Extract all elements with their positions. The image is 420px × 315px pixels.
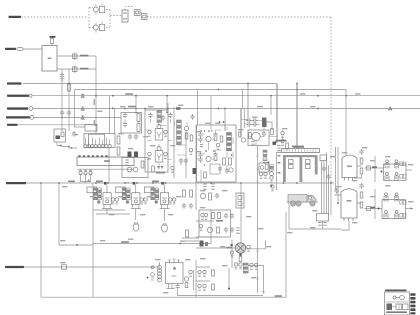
part near bus F	[271, 185, 274, 191]
capacitor C16	[134, 134, 138, 140]
ticks on x263	[262, 292, 264, 294]
coil bar ticks	[283, 149, 285, 151]
pin ladder INJ2b	[127, 188, 131, 190]
injector module INJ1	[103, 193, 111, 205]
wire dashed link	[140, 13, 150, 17]
lamp LP1	[133, 222, 139, 231]
module stem INJ1	[106, 185, 108, 193]
dark component E4	[273, 142, 277, 145]
junction dots core	[144, 108, 146, 110]
pins AMP bottom2	[211, 184, 214, 189]
junction ball INJ3	[155, 200, 158, 203]
module legs INJ3	[160, 204, 170, 208]
connector box INJ2	[116, 187, 126, 193]
wire into subckt	[244, 119, 248, 121]
relay unit A4	[394, 172, 398, 180]
wire x328 down	[328, 165, 330, 215]
wire M-B bottom loop	[341, 221, 349, 230]
box bottom mid frame	[285, 212, 287, 297]
transistor Q1	[93, 7, 98, 12]
capacitor C12	[148, 113, 152, 119]
wire under bar	[77, 168, 134, 170]
capacitor C44	[224, 227, 228, 233]
connector box INJ3	[144, 187, 154, 193]
capacitor C43	[230, 213, 234, 219]
ladder RL2	[157, 111, 162, 113]
wire y241 link	[182, 240, 199, 242]
wire x289 down	[288, 202, 290, 229]
diode D6	[281, 139, 284, 145]
junction dots bus F	[40, 182, 42, 184]
wire to cluster B	[365, 208, 383, 210]
box coil right	[320, 155, 327, 161]
contact sq A	[400, 162, 403, 166]
box BC	[199, 210, 231, 237]
capacitor C26	[215, 193, 219, 199]
label at cluster B	[371, 207, 376, 209]
wire x225 down	[224, 109, 226, 132]
capacitor C34	[334, 188, 338, 194]
wire RL4 out	[249, 266, 264, 294]
transistor Q2	[93, 25, 98, 30]
relay unit A1	[385, 160, 389, 168]
relay unit A2	[394, 160, 398, 168]
pin T3 on SC1	[177, 260, 180, 264]
wire core stubs	[145, 119, 187, 169]
pin ladder INJ1a	[94, 188, 98, 190]
resistor R47	[360, 192, 363, 198]
capacitor C19	[182, 203, 186, 209]
transistor Q7	[206, 156, 211, 161]
module detail INJ3	[162, 197, 167, 199]
value label 31	[168, 214, 174, 215]
module legs INJ2	[131, 204, 141, 208]
resistor R2 on x69	[68, 84, 71, 91]
value label 8	[238, 129, 244, 130]
wire x338 down	[337, 147, 339, 203]
value label 11	[355, 93, 361, 94]
resistor R29	[190, 135, 193, 141]
coil crossbar	[283, 155, 318, 157]
value label 21	[196, 151, 202, 152]
node F label	[6, 182, 26, 184]
wire y245 link	[59, 244, 93, 246]
part in cluster	[61, 132, 64, 137]
pins in AMP	[200, 145, 203, 147]
capacitor C39	[175, 284, 179, 290]
resistor R25	[117, 136, 120, 144]
resistor R42	[249, 133, 252, 139]
sensor G3	[89, 170, 92, 180]
wire x335.5 down	[335, 147, 337, 190]
node A label	[7, 82, 22, 84]
pair INJ1r1	[111, 198, 114, 204]
text above coil	[276, 140, 287, 142]
resistor R28	[185, 133, 188, 139]
inductor on bus G	[62, 265, 67, 269]
resistor R41	[209, 193, 212, 200]
transformer T1	[262, 118, 267, 128]
dark parts below box	[200, 241, 204, 247]
IC U1	[42, 46, 57, 72]
relay unit B3	[384, 210, 388, 218]
pins TB1	[318, 223, 321, 226]
text coil	[292, 146, 304, 148]
resistor R33	[214, 134, 217, 141]
label at cluster A	[372, 166, 377, 168]
junction dots zigzag	[60, 145, 62, 147]
value label 7	[252, 117, 258, 118]
wire bus A y83.5	[23, 83, 277, 85]
relay box B	[382, 200, 406, 219]
wire x211 lower	[210, 210, 212, 244]
wire AMP feeds	[197, 125, 226, 183]
wire bottom y297	[41, 296, 286, 298]
box CH1	[121, 113, 142, 134]
dots in AMP	[204, 130, 205, 131]
wire dashed to F1	[110, 15, 122, 17]
capacitor C18	[184, 158, 188, 164]
arrow in SC1	[173, 266, 177, 269]
module detail INJ2	[134, 197, 139, 199]
value label 26	[176, 196, 182, 197]
pair RL4r1	[250, 263, 253, 269]
capacitor C42	[224, 213, 228, 219]
diode D1 on bus B	[81, 94, 84, 97]
value label 1	[97, 111, 103, 112]
wire bus G y267	[24, 266, 160, 268]
dark junction INJ2	[133, 182, 136, 185]
wire y214 link	[96, 213, 130, 215]
resistor R29b	[152, 166, 155, 172]
legend side label 3	[410, 301, 415, 304]
label left of coil box	[278, 155, 281, 157]
value label 14	[336, 186, 342, 187]
switch S1a	[100, 6, 105, 12]
wire x62 down	[61, 75, 63, 131]
switch S1b	[100, 24, 105, 30]
resistor R51	[212, 284, 215, 290]
box TB1	[317, 214, 329, 222]
resistor R46	[360, 168, 363, 174]
wire N3 stem	[163, 209, 165, 221]
value label 54	[220, 246, 226, 247]
capacitor C30	[252, 122, 258, 126]
label near C4	[75, 134, 79, 135]
resistor R37	[220, 136, 223, 142]
wire N2 stem	[135, 209, 137, 220]
dots x112.8	[112, 95, 114, 97]
value label 55	[266, 246, 272, 247]
pair in AMP	[216, 143, 219, 149]
value label 20	[196, 131, 202, 132]
pair ignB	[270, 176, 273, 182]
wire x168 stub	[167, 103, 169, 110]
legend side label 5	[410, 308, 415, 311]
value label 38	[163, 292, 169, 293]
coil post right	[315, 157, 318, 175]
value label 52	[128, 239, 134, 240]
capacitor C22	[198, 137, 202, 143]
connector J2	[17, 47, 23, 50]
capacitor C15	[128, 134, 132, 140]
ladder RL4	[243, 263, 248, 265]
legend item box1	[396, 304, 402, 310]
value label 6	[215, 123, 221, 124]
wire M-A out	[354, 166, 362, 178]
value label 33	[246, 216, 252, 217]
wire bus B y95.7	[32, 95, 420, 97]
wire dashed down right side	[330, 17, 332, 182]
value label 16	[143, 136, 149, 137]
wire x232 chain	[231, 240, 233, 268]
pair P3b	[164, 152, 167, 158]
text on bus F 3	[152, 181, 159, 183]
wire x197.5 down	[197, 90, 199, 126]
value label 27	[200, 190, 206, 191]
capacitor C11	[123, 122, 127, 128]
value label 40	[222, 265, 228, 266]
box ignA	[259, 163, 269, 172]
text bottom right corner	[275, 295, 283, 297]
wire x346 down	[345, 90, 347, 156]
wire dashed	[106, 9, 110, 11]
pins TB1b	[323, 223, 326, 226]
resistor R40	[229, 158, 232, 165]
wire to cluster A	[365, 167, 384, 169]
part in box1	[238, 196, 242, 200]
wire x114.4 down	[113, 108, 115, 133]
value label 57	[330, 156, 336, 157]
connector JC	[29, 107, 33, 111]
twin contact K1a	[84, 138, 91, 148]
label x96 lower	[94, 120, 95, 126]
wire bus C y108.5	[33, 108, 420, 110]
label left of coil box 2	[278, 162, 281, 164]
contact sq B	[400, 201, 403, 205]
junction x338	[337, 202, 339, 204]
resistor R41b	[204, 172, 207, 178]
text BC	[216, 220, 223, 222]
wire x242.5 down	[242, 90, 244, 109]
value label 46	[385, 185, 391, 186]
resistor R27	[141, 161, 144, 168]
value label 15	[118, 133, 124, 134]
driver module M2	[155, 146, 163, 162]
relay unit A3	[385, 172, 389, 180]
legend footer text	[386, 311, 407, 313]
motor M-A	[342, 155, 357, 178]
ring A	[263, 157, 267, 161]
wire BC links	[196, 221, 220, 237]
node C label	[7, 107, 28, 109]
wire x211 down	[210, 96, 212, 125]
legend connector dark	[387, 304, 393, 311]
pair ignA2	[264, 172, 267, 178]
dark part in cluster	[56, 136, 61, 140]
dark component E1	[128, 152, 132, 158]
capacitor C13	[168, 113, 172, 119]
pair INJ2r2	[144, 198, 147, 204]
transistor Q9	[252, 132, 260, 140]
twin contact K1b	[91, 138, 98, 148]
wire dashed branch up	[88, 8, 90, 31]
pin ladder INJ2a	[122, 188, 126, 190]
pair bottom1	[198, 270, 201, 276]
wire x257.5 long	[257, 146, 259, 294]
wire x109.5 down	[109, 96, 111, 134]
wire x41 down	[40, 183, 42, 297]
junction ring on bus G	[151, 266, 154, 269]
pair bottom3	[198, 284, 201, 290]
capacitor C21	[198, 132, 202, 138]
wire cluster B out	[406, 208, 414, 210]
wire x241 down	[240, 109, 242, 138]
wire subckt elbow	[267, 122, 273, 130]
lamp LP2	[162, 223, 168, 232]
capacitor C3	[67, 110, 71, 116]
leads S1b	[96, 22, 102, 33]
wire dashed	[106, 27, 110, 29]
wire x196	[195, 125, 197, 210]
wire x324 down	[323, 161, 325, 214]
value label 4	[178, 105, 184, 106]
junction ball INJ2	[126, 200, 129, 203]
pin T1 on SC1	[168, 260, 171, 264]
wire corner x74.3	[74, 90, 85, 127]
wire x167 down	[166, 96, 168, 113]
wire M-B out	[357, 203, 362, 208]
wire bottom box	[195, 260, 197, 297]
wire x145 stub	[144, 109, 146, 111]
connector P1a	[135, 10, 141, 16]
value label 18	[170, 145, 176, 146]
text on y243.5	[121, 241, 129, 243]
dark component E3	[193, 168, 197, 174]
wire cluster A out	[406, 169, 412, 171]
transistor Q9b	[241, 138, 245, 142]
dark dot A	[267, 162, 269, 164]
resistor R50	[212, 270, 215, 276]
capacitor C41	[326, 174, 330, 180]
pin dot row	[78, 155, 80, 157]
box in AMP lower	[210, 164, 220, 174]
pair core2	[189, 148, 192, 154]
wire x271 down	[270, 96, 272, 115]
text on bus B	[125, 93, 133, 95]
value label 37	[185, 259, 191, 260]
transistor Q10	[184, 277, 188, 281]
capacitor C27	[246, 118, 252, 122]
box lamp cluster	[54, 129, 66, 142]
arrow at sensor join	[87, 179, 90, 182]
pins M-A	[345, 178, 353, 181]
wire frame left	[93, 209, 125, 211]
value label 25	[147, 196, 153, 197]
wire y243.5 link	[93, 243, 211, 245]
wire AMP internals	[203, 127, 233, 170]
wire vertical x69	[68, 69, 70, 131]
value label 42	[310, 227, 316, 228]
junction ball INJ1	[97, 200, 100, 203]
vehicle pictogram	[287, 195, 319, 207]
wire x186	[185, 130, 187, 178]
wire LX1 left	[196, 247, 235, 249]
module legs INJ1	[102, 204, 112, 208]
resistor R26	[117, 147, 120, 155]
coil bar top	[282, 149, 320, 153]
wire x59 down	[58, 183, 60, 245]
value label 13	[362, 147, 368, 148]
wire cluster zigzag	[57, 142, 77, 148]
wire dashed join	[109, 10, 111, 28]
fuse F2	[73, 53, 78, 61]
SC1 legs	[167, 283, 175, 288]
module stem INJ2	[135, 185, 137, 193]
wire x375 clusterA	[374, 156, 376, 182]
resistor R32	[186, 230, 189, 237]
pair BC2	[204, 213, 207, 219]
box AMP	[197, 125, 237, 182]
box K1 inner	[89, 134, 105, 147]
wire ch1 links	[125, 119, 139, 124]
pair SC1r	[189, 270, 192, 276]
label left of LX1	[226, 247, 232, 249]
connector JB	[29, 94, 32, 97]
pair P2a	[148, 130, 151, 136]
pair INJ3r1	[169, 198, 172, 204]
value label 49	[60, 240, 66, 241]
solenoid coil W10	[158, 262, 162, 282]
wire x248 down	[247, 84, 249, 120]
resistor R49	[239, 257, 242, 262]
dark junction cluster A	[381, 171, 383, 173]
capacitor C18b	[161, 115, 165, 121]
pair BC3	[199, 224, 202, 230]
coil post left	[283, 155, 286, 182]
injector module INJ2	[132, 193, 140, 205]
pins col core	[125, 160, 128, 165]
text under core	[156, 172, 165, 174]
capacitor C2	[60, 110, 64, 116]
capacitor C23	[198, 152, 202, 158]
transistor Q4	[133, 167, 138, 172]
part in box2	[238, 202, 242, 206]
value label 59	[370, 160, 376, 161]
value label 9	[282, 128, 288, 129]
transistor Q8	[200, 193, 205, 198]
node W1 label	[9, 16, 22, 18]
legend divider	[386, 301, 409, 303]
value label 10	[300, 93, 306, 94]
module coil INJ2	[134, 200, 137, 203]
value label 19	[128, 148, 134, 149]
wire x241 lower	[240, 183, 242, 243]
wire x229 chain	[228, 268, 230, 289]
fuse F5	[367, 207, 371, 211]
text on bus C	[128, 106, 136, 108]
capacitor C40	[322, 166, 326, 172]
resistor R44	[286, 143, 289, 149]
dark dots AMP	[200, 130, 202, 132]
wire to U1	[23, 48, 42, 50]
connector bar X1	[77, 157, 134, 166]
wire x193 SC1	[192, 270, 194, 290]
relay box A	[384, 164, 407, 180]
wire vertical x109	[108, 148, 110, 184]
resistor R56	[212, 213, 215, 219]
box lower-left of core	[122, 158, 148, 178]
